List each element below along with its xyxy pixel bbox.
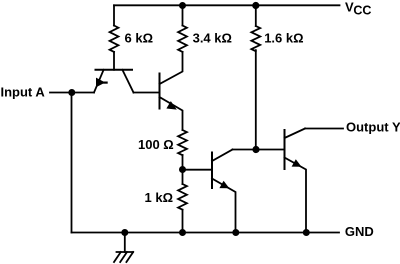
ground symbol hatch 1 [114, 252, 121, 262]
node junction dot top rail at R3 [252, 2, 259, 9]
svg-text:CC: CC [353, 4, 371, 18]
transistor Q1 emitter arrowhead [96, 78, 105, 88]
node junction dot GND at ground symbol [121, 229, 128, 236]
resistor R2 3.4k ohm [178, 26, 187, 52]
node input A junction dot [68, 89, 75, 96]
transistor Q4 emitter [285, 158, 307, 233]
transistor Q2 collector [160, 52, 183, 84]
transistor Q1 emitter [94, 70, 104, 93]
node junction dot GND at Q3 emitter [232, 229, 239, 236]
svg-text:100 Ω: 100 Ω [138, 137, 174, 152]
svg-text:GND: GND [345, 224, 374, 239]
wire GND bottom rail [72, 232, 340, 234]
svg-text:3.4 kΩ: 3.4 kΩ [193, 31, 232, 46]
resistor R4 100 ohm [178, 130, 187, 155]
wire R5 bottom to GND rail [182, 210, 184, 233]
node junction dot GND at Q4 emitter [303, 229, 310, 236]
wire 6k top lead [113, 5, 115, 25]
transistor Q4 emitter arrowhead [292, 159, 302, 167]
transistor Q1 emitter arrow [104, 81, 106, 83]
transistor Q3 base bar [211, 153, 213, 189]
transistor Q4 base bar [284, 130, 286, 169]
wire Q3 collector to Q4 base [233, 149, 285, 151]
node junction dot GND at R5 [179, 229, 186, 236]
wire VCC top rail [114, 4, 340, 6]
svg-text:1 kΩ: 1 kΩ [145, 190, 174, 205]
wire node B to R5 top [182, 170, 184, 185]
wire Q1 collector to Q2 base [134, 92, 160, 94]
wire 3.4k top lead [182, 5, 184, 25]
wire R1 bottom to Q1 base [113, 52, 115, 70]
transistor Q2 emitter [160, 97, 183, 130]
transistor Q3 collector [212, 150, 233, 162]
wire R3 bottom to node C [255, 50, 257, 149]
resistor R1 6k ohm [110, 26, 119, 52]
svg-text:6 kΩ: 6 kΩ [125, 31, 154, 46]
wire R4 bottom to node B [182, 155, 184, 170]
svg-text:Input A: Input A [1, 85, 46, 100]
transistor Q2 emitter arrowhead [166, 101, 176, 110]
transistor Q3 emitter [212, 179, 236, 233]
node junction dot top rail at R2 [179, 2, 186, 9]
transistor Q4 collector [285, 129, 306, 139]
node B junction dot (R4/R5/Q3 base) [179, 166, 186, 173]
wire node B to Q3 base [183, 169, 213, 171]
transistor Q3 emitter arrowhead [219, 181, 229, 189]
ground symbol stem [124, 233, 126, 253]
node C junction dot (R3/Q3 collector/Q4 base) [252, 146, 259, 153]
transistor Q2 base bar [159, 74, 161, 109]
ground symbol hatch 3 [126, 252, 133, 262]
transistor Q1 collector [122, 70, 133, 93]
resistor R5 1k ohm [178, 184, 187, 210]
svg-text:1.6 kΩ: 1.6 kΩ [264, 31, 303, 46]
wire 1.6k top lead [255, 5, 257, 26]
transistor Q1 base bar [96, 69, 133, 71]
wire output [305, 128, 343, 130]
wire input segment [50, 92, 94, 94]
resistor R3 1.6k ohm [251, 26, 260, 51]
ground symbol bar [117, 251, 134, 253]
svg-text:Output Y: Output Y [346, 120, 400, 135]
wire input node to GND rail left side [71, 93, 73, 233]
ground symbol hatch 2 [120, 252, 127, 262]
